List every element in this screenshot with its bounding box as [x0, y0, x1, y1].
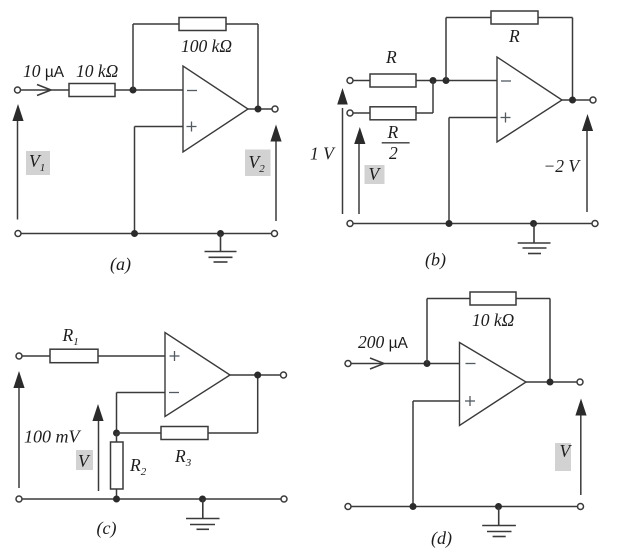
arrow V2: [270, 125, 281, 222]
pin plus b: [501, 113, 511, 123]
terminal rail right c: [281, 496, 287, 502]
wire feedback up d: [426, 299, 428, 364]
wire R2 bottom: [116, 489, 118, 499]
arrow -2V: [582, 114, 593, 212]
wire plus input a: [135, 127, 184, 234]
label V d: [555, 441, 573, 471]
wire minus input c: [117, 393, 166, 434]
resistor R3: [161, 427, 208, 440]
terminal input b1: [347, 78, 353, 84]
wire output a: [248, 108, 272, 110]
wire feedback up: [132, 24, 134, 90]
svg-text:R: R: [385, 47, 397, 67]
arrow V d: [575, 399, 586, 496]
svg-text:10 µA: 10 µA: [23, 61, 65, 81]
op-amp U3: [165, 333, 230, 417]
op-amp U2: [497, 57, 562, 142]
arrow V c: [92, 404, 103, 491]
wire output c: [230, 374, 281, 376]
svg-text:100 mV: 100 mV: [24, 427, 81, 447]
resistor 10k d: [470, 292, 516, 305]
terminal rail left a: [15, 231, 21, 237]
wire feedback down: [257, 24, 259, 109]
pin plus a: [187, 122, 197, 132]
svg-text:(b): (b): [425, 250, 446, 271]
node inverting a: [130, 87, 137, 94]
wire: [416, 81, 433, 114]
svg-text:(c): (c): [97, 518, 117, 539]
node rail d2: [495, 503, 502, 510]
arrow 100mV: [13, 371, 24, 488]
wire: [133, 23, 179, 25]
node output b: [569, 97, 576, 104]
label V1: [26, 151, 50, 175]
wire riser c: [257, 375, 259, 433]
node output c: [254, 372, 261, 379]
terminal output b: [590, 97, 596, 103]
label R/2: [382, 122, 410, 163]
svg-text:R: R: [508, 26, 520, 46]
wire feedback down b: [572, 18, 574, 101]
label V b: [365, 164, 385, 184]
terminal rail right d: [578, 504, 584, 510]
terminal output a: [272, 106, 278, 112]
wire feedback up b: [445, 18, 447, 81]
wire: [416, 80, 497, 82]
node rail c2: [199, 496, 206, 503]
pin minus a: [187, 90, 197, 92]
wire: [98, 355, 165, 357]
node b2: [443, 77, 450, 84]
terminal rail right a: [272, 231, 278, 237]
terminal rail left c: [16, 496, 22, 502]
resistor R b: [370, 74, 416, 87]
pin minus d: [466, 363, 476, 365]
node rail c1: [113, 496, 120, 503]
wire: [117, 432, 162, 434]
wire bottom rail a: [21, 233, 272, 235]
wire: [208, 432, 258, 434]
pin minus b: [501, 80, 511, 82]
arrow V1: [12, 104, 23, 220]
resistor R1: [50, 349, 98, 363]
node b1: [430, 77, 437, 84]
pin minus c: [169, 392, 179, 394]
node rail b1: [446, 220, 453, 227]
svg-text:R2: R2: [129, 455, 147, 478]
ground a: [205, 234, 237, 263]
terminal rail left d: [345, 504, 351, 510]
svg-text:1 V: 1 V: [310, 144, 336, 164]
svg-text:−2 V: −2 V: [544, 156, 582, 176]
wire: [538, 17, 573, 19]
wire: [115, 89, 183, 91]
wire: [427, 298, 470, 300]
current arrow 10uA: [37, 85, 51, 96]
wire: [21, 89, 69, 91]
terminal input b2: [347, 110, 353, 116]
wire: [351, 363, 460, 365]
terminal rail left b: [347, 221, 353, 227]
arrow 1V: [337, 88, 348, 214]
arrow V b: [354, 127, 365, 214]
terminal input a: [15, 87, 21, 93]
resistor R2: [111, 442, 124, 489]
node rail a1: [131, 230, 138, 237]
wire feedback down d: [549, 299, 551, 383]
current arrow 200uA: [370, 358, 384, 369]
ground d: [482, 507, 516, 537]
terminal output d: [577, 379, 583, 385]
resistor R/2: [370, 107, 416, 120]
svg-text:(a): (a): [110, 254, 131, 275]
node rail a2: [217, 230, 224, 237]
wire: [516, 298, 550, 300]
wire: [226, 23, 258, 25]
ground c: [186, 499, 220, 529]
node rail d1: [410, 503, 417, 510]
terminal rail right b: [592, 221, 598, 227]
wire plus input d: [413, 401, 460, 507]
svg-text:R: R: [387, 122, 399, 142]
wire: [353, 80, 370, 82]
resistor R feedback b: [491, 11, 538, 24]
node output d: [547, 379, 554, 386]
svg-text:2: 2: [389, 143, 398, 163]
node inverting d: [424, 360, 431, 367]
svg-text:10 kΩ: 10 kΩ: [76, 61, 119, 81]
wire plus input b: [449, 118, 497, 224]
label V c: [76, 450, 93, 471]
terminal input d: [345, 361, 351, 367]
wire bottom rail d: [351, 506, 578, 508]
pin plus c: [170, 351, 180, 361]
wire: [353, 112, 370, 114]
svg-text:R1: R1: [62, 325, 79, 348]
wire output d: [526, 381, 577, 383]
wire R2 top: [116, 433, 118, 442]
terminal input c: [16, 353, 22, 359]
wire bottom rail b: [353, 223, 592, 225]
svg-text:(d): (d): [431, 528, 452, 549]
ground b: [518, 224, 551, 254]
resistor 100k a: [179, 18, 226, 31]
op-amp U4: [460, 343, 527, 426]
terminal output c: [281, 372, 287, 378]
svg-text:100 kΩ: 100 kΩ: [181, 36, 232, 56]
pin plus d: [465, 396, 475, 406]
op-amp U1: [183, 66, 248, 152]
node output a: [255, 106, 262, 113]
resistor 10k a: [69, 84, 115, 97]
node rail b2: [530, 220, 537, 227]
svg-text:R3: R3: [174, 446, 192, 469]
svg-text:10 kΩ: 10 kΩ: [472, 310, 515, 330]
node feedback c: [113, 430, 120, 437]
svg-text:200 µA: 200 µA: [358, 332, 409, 352]
wire: [446, 17, 491, 19]
wire: [22, 355, 50, 357]
label V2: [245, 150, 271, 177]
wire bottom rail c: [22, 498, 281, 500]
wire output b: [562, 99, 590, 101]
